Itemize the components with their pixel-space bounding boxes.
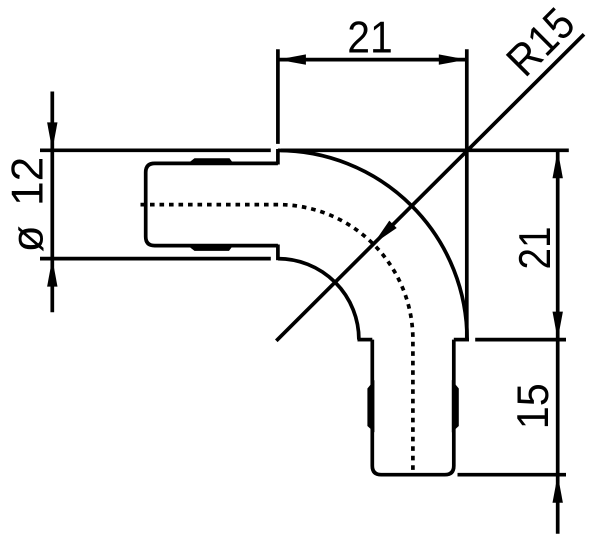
dim ø12: dimension line / end face	[50, 92, 54, 313]
part: spigot step left	[358, 338, 373, 342]
part: socket bump top	[186, 158, 235, 165]
dim 15: bottom extension line	[458, 473, 567, 477]
part: socket end step, top	[276, 149, 280, 165]
svg-text:21: 21	[511, 227, 560, 270]
svg-text:15: 15	[509, 383, 558, 429]
part: spigot step right	[454, 338, 469, 342]
arrow 21 top right (points right)	[439, 54, 467, 64]
part: spigot bump left	[367, 380, 374, 432]
svg-text:R15: R15	[497, 0, 584, 86]
arrow 21 right top (points up)	[553, 150, 563, 178]
dim R15: leader line	[276, 34, 584, 341]
arrow ø12 bottom (points up)	[47, 259, 57, 287]
part: socket end step, bottom	[276, 245, 280, 261]
dim 21 right: top extension line	[281, 148, 569, 152]
part: socket bump bottom	[186, 244, 234, 251]
part: socket bottom outer edge (with ø12 extension)	[40, 257, 271, 261]
part: spigot outline with rounded bottom corners	[372, 340, 454, 475]
arrow ø12 top (points down)	[47, 122, 57, 150]
dim 21 top: left extension line	[276, 49, 280, 144]
arrow R15 (points down-left at centerline arc)	[373, 221, 397, 245]
arrow 21 right bottom (points down)	[553, 312, 563, 340]
dim 21 top: right extension line (continues to bend corner)	[465, 49, 469, 339]
part: inner bend arc R81	[278, 259, 359, 340]
part: socket top outer edge (with ø12 extension)	[40, 148, 271, 152]
svg-text:ø 12: ø 12	[4, 157, 53, 253]
svg-text:21: 21	[347, 13, 393, 62]
dim 21 right / 15: shared extension line	[475, 338, 566, 342]
part: outer bend arc R189	[278, 150, 467, 339]
arrow 21 top left (points left)	[278, 54, 306, 64]
part: centerline (dotted)	[141, 205, 413, 475]
part: spigot bump right	[452, 380, 459, 432]
dim 21 right + 15: dimension line	[556, 150, 560, 533]
arrow 15 bottom (points up, outside)	[553, 475, 563, 503]
dim 21 top: dimension line	[278, 58, 467, 62]
part: socket bore with seat shoulder and fillets	[146, 163, 278, 245]
